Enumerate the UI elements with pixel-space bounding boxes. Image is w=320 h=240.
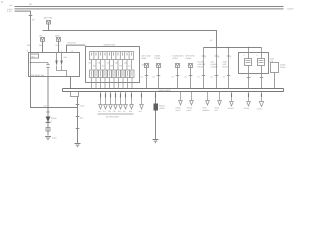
svg-text:FR-: FR- bbox=[113, 110, 116, 113]
svg-text:1: 1 bbox=[244, 54, 245, 57]
svg-text:FL-: FL- bbox=[103, 110, 106, 113]
svg-text:C3: C3 bbox=[153, 76, 155, 79]
svg-text:BLK/YEL: BLK/YEL bbox=[44, 17, 53, 20]
LED arrow pair inside switch bbox=[55, 61, 63, 66]
sub-box marks bbox=[246, 61, 264, 63]
svg-text:MIRROR: MIRROR bbox=[203, 109, 211, 112]
wire exit bottom of switch to bus bbox=[67, 77, 71, 89]
audio output driver cells row bbox=[90, 70, 135, 78]
wire hot-at-all-times BLK/YEL top feed bbox=[15, 6, 284, 8]
switch contact x47 bbox=[46, 63, 49, 77]
svg-text:RELAY: RELAY bbox=[223, 65, 230, 68]
ground symbol G404 bbox=[45, 137, 51, 140]
stub below bus x248 bbox=[244, 92, 251, 111]
middle stub x158 noise condenser bbox=[153, 55, 162, 89]
wire internal join bbox=[57, 71, 67, 77]
svg-text:RELAY: RELAY bbox=[198, 65, 205, 68]
ground symbol G402 bbox=[153, 140, 159, 143]
wire drop to heated seat switch pin A bbox=[42, 42, 44, 53]
svg-text:C10: C10 bbox=[44, 105, 47, 108]
stub below bus x180 bbox=[176, 92, 183, 112]
svg-text:YEL: YEL bbox=[39, 35, 44, 38]
wire vertical from connector C304 to bus H1 bbox=[48, 24, 50, 31]
svg-text:W16: W16 bbox=[39, 44, 44, 47]
speaker feed stubs below bus group bbox=[101, 92, 132, 105]
stub below bus x261 bbox=[257, 92, 264, 111]
audio pin drop wires bbox=[92, 60, 132, 70]
svg-text:LIGHT: LIGHT bbox=[187, 109, 192, 112]
wire H1 horizontal distribution bbox=[43, 31, 217, 48]
svg-text:NOISE: NOISE bbox=[159, 107, 165, 110]
wire y44 link to audio unit bbox=[67, 45, 86, 52]
wire WHT/BLK top feed 2 bbox=[15, 8, 284, 10]
svg-text:ANT: ANT bbox=[139, 110, 142, 113]
svg-text:C: C bbox=[230, 56, 232, 59]
node dots bus2 bbox=[216, 47, 250, 49]
wire contact leg down bbox=[47, 77, 49, 136]
connector C416 tick on vertical bbox=[29, 15, 33, 17]
label right of seat heater box bbox=[270, 58, 275, 63]
condenser box far right bbox=[271, 63, 279, 73]
stub below bus x219 bbox=[215, 92, 222, 112]
svg-text:RL+: RL+ bbox=[118, 110, 121, 113]
wire switch leg to ground chain bbox=[31, 77, 78, 108]
svg-text:AUDIO UNIT: AUDIO UNIT bbox=[104, 44, 117, 47]
heater element sub-box left bbox=[245, 59, 252, 66]
connector symbol on drop x58 bbox=[55, 35, 61, 42]
audio pin ticks inside strip bbox=[92, 53, 132, 56]
svg-text:S/ROOF: S/ROOF bbox=[228, 107, 234, 110]
svg-text:PANEL: PANEL bbox=[186, 57, 192, 60]
svg-text:C5: C5 bbox=[32, 19, 36, 22]
svg-text:G15: G15 bbox=[56, 44, 61, 47]
drop x228 seat heater feed bbox=[223, 48, 233, 89]
svg-text:FR+: FR+ bbox=[108, 110, 111, 113]
wires out of sub-boxes to box bottom bbox=[249, 66, 262, 74]
drop x216 accessory socket bbox=[211, 48, 221, 89]
exits of seat heater box to bus bbox=[247, 74, 264, 89]
heated seat switch box bbox=[29, 53, 80, 77]
svg-text:WHT/YEL: WHT/YEL bbox=[68, 42, 76, 45]
svg-text:C7: C7 bbox=[198, 76, 200, 79]
svg-text:A: A bbox=[205, 56, 207, 59]
svg-text:IND: IND bbox=[64, 56, 68, 59]
svg-text:TO B24: TO B24 bbox=[257, 108, 263, 111]
relay coil block bbox=[154, 104, 159, 111]
middle antenna stub x146 bbox=[141, 55, 152, 89]
indicator bulb sub-box inside switch bbox=[31, 53, 39, 63]
heater element sub-box right bbox=[258, 59, 265, 66]
svg-text:C9: C9 bbox=[223, 76, 225, 79]
svg-text:COND: COND bbox=[280, 66, 286, 69]
harness tab connector below bus bbox=[71, 92, 79, 97]
svg-text:HTD SEAT SW: HTD SEAT SW bbox=[30, 74, 44, 77]
middle stub x190 heater control bbox=[185, 55, 195, 89]
connector C304 symbol bbox=[47, 21, 51, 25]
svg-text:LIGHT: LIGHT bbox=[176, 109, 181, 112]
label right of condenser bbox=[280, 64, 286, 69]
middle stub x177 glove box light bbox=[172, 55, 185, 89]
svg-text:B: B bbox=[218, 56, 220, 59]
wire YEL feed 3 bbox=[15, 11, 31, 52]
stub below bus x191 bbox=[187, 92, 194, 112]
svg-text:DASH HARN: DASH HARN bbox=[159, 89, 171, 92]
svg-text:RL-: RL- bbox=[123, 110, 126, 113]
svg-text:C4: C4 bbox=[172, 76, 174, 79]
connector symbol on drop x42 bbox=[39, 35, 45, 42]
svg-text:3: 3 bbox=[257, 54, 258, 57]
svg-text:TO SPEAKERS: TO SPEAKERS bbox=[106, 116, 120, 119]
svg-text:T DASH: T DASH bbox=[287, 8, 295, 11]
wire internal horizontal to contact bbox=[31, 62, 49, 64]
drop x203 cig lighter bbox=[198, 48, 208, 89]
svg-text:C6: C6 bbox=[185, 76, 187, 79]
seat heater box right bbox=[239, 53, 269, 74]
audio pin wire labels bbox=[89, 62, 131, 68]
audio unit box bbox=[86, 47, 140, 83]
stub wire color pills bbox=[101, 94, 132, 98]
ground symbol G401 bbox=[75, 144, 81, 147]
svg-text:FL+: FL+ bbox=[98, 110, 101, 113]
svg-text:C8: C8 bbox=[211, 76, 213, 79]
svg-text:DEF: DEF bbox=[215, 109, 218, 112]
wire switch left leg down bbox=[30, 63, 32, 77]
svg-text:RR+: RR+ bbox=[129, 110, 132, 113]
svg-text:WIRE: WIRE bbox=[142, 57, 148, 60]
svg-text:G404: G404 bbox=[52, 137, 56, 140]
svg-text:F23: F23 bbox=[9, 4, 12, 7]
connector tick on x47 chain bbox=[46, 111, 50, 113]
node junction x47 on y107 wire bbox=[47, 107, 49, 109]
svg-text:4P: 4P bbox=[210, 39, 213, 42]
entry wires into seat heater box bbox=[249, 48, 262, 59]
relay chain below bus x155 bbox=[153, 92, 166, 143]
svg-text:F21: F21 bbox=[29, 3, 32, 6]
wire drop to heated seat switch pin B bbox=[58, 42, 60, 53]
svg-text:40: 40 bbox=[1, 1, 4, 4]
dashboard wire harness bus bbox=[63, 89, 284, 92]
connector square on x47 chain bbox=[46, 128, 50, 132]
svg-text:BL: BL bbox=[102, 65, 104, 68]
speaker group brace line bbox=[98, 113, 134, 115]
svg-text:3 YEL: 3 YEL bbox=[7, 10, 12, 13]
stub below bus x231 bbox=[228, 92, 234, 111]
svg-text:COND: COND bbox=[155, 57, 161, 60]
svg-text:BLK: BLK bbox=[80, 117, 84, 120]
antenna stub below bus x141 bbox=[139, 92, 144, 114]
diode assembly on x47 chain bbox=[46, 117, 58, 123]
stub connector arrows bbox=[99, 105, 134, 110]
svg-text:SOCKET: SOCKET bbox=[211, 65, 219, 68]
ground wire chain x77 bbox=[76, 97, 80, 144]
stub below bus x207 bbox=[203, 92, 211, 112]
svg-text:G401: G401 bbox=[80, 105, 84, 108]
svg-text:C2: C2 bbox=[141, 76, 143, 79]
node junction dot left bbox=[30, 62, 32, 64]
driver cell inner marks bbox=[92, 71, 133, 77]
distribution bus2 y47 bbox=[204, 47, 262, 49]
svg-text:LIGHT: LIGHT bbox=[173, 57, 179, 60]
stub labels bbox=[98, 110, 132, 113]
wire condenser to bus bbox=[274, 73, 276, 89]
audio connector pin strip bbox=[90, 52, 134, 60]
svg-text:TO B23: TO B23 bbox=[244, 107, 250, 110]
svg-text:GRN: GRN bbox=[55, 35, 60, 38]
svg-text:BL: BL bbox=[129, 65, 131, 68]
audio exits to harness bus bbox=[92, 78, 133, 89]
